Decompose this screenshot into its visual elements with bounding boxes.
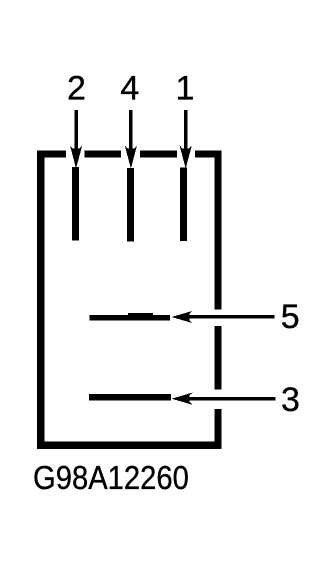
pin 1 terminal xyxy=(180,168,187,242)
callout arrow for pin 5: head xyxy=(172,311,193,323)
connector body outline: right edge upper segment xyxy=(214,151,221,310)
connector body outline: top edge segment D xyxy=(195,151,222,158)
svg-text:5: 5 xyxy=(281,298,300,336)
svg-text:3: 3 xyxy=(281,381,300,419)
svg-text:1: 1 xyxy=(176,70,195,108)
callout arrow for pin 4: head xyxy=(125,146,137,169)
callout arrow for pin 5: shaft xyxy=(180,315,275,318)
connector body outline: top edge segment C xyxy=(140,151,177,158)
pin 4 terminal xyxy=(127,168,134,242)
callout arrow for pin 4: shaft xyxy=(129,110,133,152)
svg-text:2: 2 xyxy=(67,70,86,108)
svg-text:G98A12260: G98A12260 xyxy=(33,459,189,496)
svg-text:4: 4 xyxy=(120,70,139,108)
connector body outline: top edge segment B xyxy=(85,151,122,158)
callout arrow for pin 3: shaft xyxy=(180,397,276,400)
pin 2 terminal xyxy=(72,167,79,241)
callout arrow for pin 2: shaft xyxy=(74,110,78,152)
callout arrow for pin 1: head xyxy=(180,146,192,169)
callout arrow for pin 1: shaft xyxy=(184,110,188,152)
connector body outline: right edge middle segment xyxy=(214,326,221,390)
pin 5 terminal xyxy=(90,315,171,321)
pin 3 terminal xyxy=(89,394,171,400)
connector body outline: right edge lower segment xyxy=(214,409,221,449)
connector body outline: left edge xyxy=(37,151,44,450)
connector body outline: bottom edge xyxy=(37,441,222,449)
callout arrow for pin 2: head xyxy=(70,146,82,169)
callout arrow for pin 3: head xyxy=(172,393,193,405)
pin 5 terminal overlap bump xyxy=(128,313,153,318)
connector body outline: top edge segment A xyxy=(37,151,66,158)
